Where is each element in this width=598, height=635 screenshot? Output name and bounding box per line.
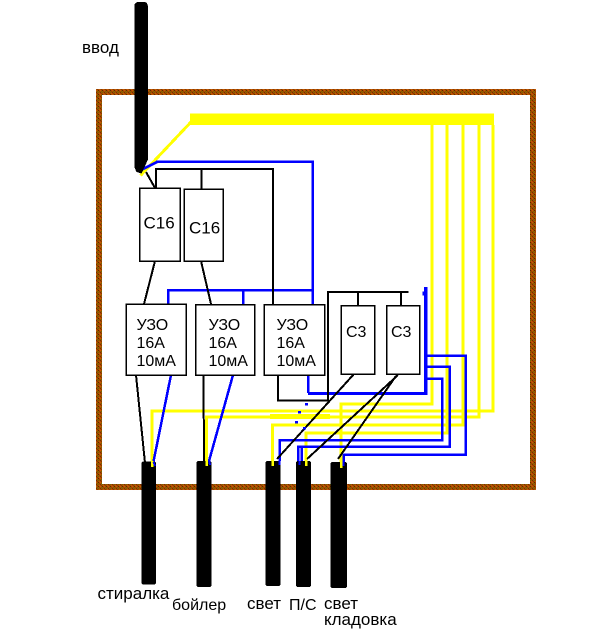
wire yellow L4 bus-to-cable2 (207, 125, 480, 462)
wire black D3 C3-2 to cable5 (338, 376, 396, 459)
svg-text:П/С: П/С (289, 597, 317, 614)
wire yellow L1 bus-to-cable5 (341, 125, 432, 463)
wire yellow L5 bus-to-cable1 (152, 125, 493, 464)
svg-text:10мА: 10мА (209, 353, 249, 370)
wire blue stub3 N-to-cable3 (280, 379, 443, 462)
wire blue neutral vertical to UZO3 (311, 162, 314, 305)
svg-text:10мА: 10мА (137, 353, 177, 370)
wire blue neutral horizontal top (156, 160, 314, 163)
RCD UZO1 (126, 304, 186, 375)
output cable 4 P/S (296, 461, 311, 587)
wire black D2 C3-2 to cable4 (307, 375, 398, 459)
wire black C16-1 to UZO1 (144, 261, 155, 304)
wire yellow feed diagonal from input cable (141, 122, 192, 176)
neutral bus top notch (423, 292, 426, 296)
stray blue speck a (305, 403, 308, 406)
svg-text:УЗО: УЗО (137, 317, 169, 334)
wire black drop to C3-2 top (400, 292, 402, 306)
neutral bus N (blue vertical) (424, 287, 428, 395)
output cable 1 stiralka (142, 462, 157, 585)
blue tick cable2 (209, 460, 210, 465)
blue tick cable4 (299, 461, 301, 465)
svg-text:С16: С16 (189, 219, 220, 238)
output cable 5 svet kladovka (331, 462, 348, 588)
panel enclosure frame (99, 92, 533, 487)
wire blue neutral diagonal at input (139, 162, 157, 171)
wire blue riser to UZO2 top (242, 289, 245, 304)
wire black tip diagonal to C16-1 (146, 172, 155, 188)
wire blue UZO1 output to cable1 (153, 375, 171, 464)
output cable 3 svet (266, 461, 281, 586)
svg-text:УЗО: УЗО (277, 317, 309, 334)
wire blue stub1 N-to-cable5 (344, 356, 466, 464)
svg-text:16А: 16А (137, 335, 166, 352)
svg-text:стиралка: стиралка (98, 584, 170, 603)
stray blue speck d (303, 427, 306, 430)
svg-text:16А: 16А (209, 335, 238, 352)
svg-text:С16: С16 (144, 214, 175, 233)
yellow tick cable3 (271, 461, 274, 466)
blue tick cable3 (279, 461, 281, 465)
breaker C3 #2 (387, 306, 420, 375)
wire blue stub2 N-to-cable4 (298, 367, 450, 462)
yellow tick cable5 (340, 462, 343, 468)
wire black drop to C16-1 top (155, 169, 157, 188)
wire black drop to UZO3 top (272, 169, 274, 304)
RCD UZO3 (264, 305, 325, 376)
breaker C16 #1 (140, 188, 181, 261)
phase bus L (yellow top bus) (190, 114, 494, 126)
svg-text:УЗО: УЗО (209, 317, 241, 334)
blue tick cable1 (154, 462, 156, 466)
svg-text:10мА: 10мА (277, 353, 317, 370)
RCD UZO2 (196, 305, 255, 376)
breaker C3 #1 (341, 306, 375, 375)
wire yellow L3 bus-to-cable3 (273, 125, 464, 463)
svg-text:16А: 16А (277, 335, 306, 352)
wire black phase horizontal top (155, 168, 274, 170)
wire black C16-2 to UZO2 (201, 261, 211, 304)
svg-text:кладовка: кладовка (324, 610, 397, 629)
svg-text:С3: С3 (391, 324, 412, 341)
wire black drop to C16-2 top (201, 169, 203, 189)
svg-text:свет: свет (247, 594, 281, 613)
svg-text:ввод: ввод (82, 38, 119, 57)
wire blue UZO3 output down (307, 375, 310, 393)
stray blue speck c (295, 421, 298, 424)
wire yellow L4 overdraw blob (270, 414, 330, 419)
blue tick cable5 (343, 462, 345, 466)
wire blue neutral rail above UZO row (167, 289, 313, 292)
yellow tick cable1 (151, 461, 154, 467)
wire black UZO1 output to cable1 (136, 375, 145, 463)
wire black C3 bus horizontal (327, 291, 409, 293)
wire black UZO2 output to cable2 (203, 375, 206, 461)
svg-text:С3: С3 (346, 324, 367, 341)
svg-text:бойлер: бойлер (172, 597, 226, 614)
yellow tick cable4 (305, 461, 308, 466)
wire blue stub2 doubled riser (300, 447, 303, 461)
output cable 2 boiler (197, 461, 212, 587)
wire black C3 feed vertical (327, 292, 329, 401)
wire blue UZO3 output horizontal to neutral bus N (308, 392, 427, 395)
wire black UZO3 output L-shape (278, 375, 329, 401)
input cable (vvod) (135, 2, 148, 174)
wire yellow L2 bus-to-cable4 (306, 125, 447, 462)
wire black D1 C3-1 to cable3 (277, 374, 354, 459)
yellow tick cable2 (205, 460, 208, 466)
wire blue riser to UZO1 top (167, 289, 170, 304)
wire black drop to C3-1 top (357, 292, 359, 306)
breaker C16 #2 (184, 189, 223, 261)
wire blue UZO2 output to cable2 (209, 375, 233, 461)
stray blue speck b (298, 411, 301, 414)
